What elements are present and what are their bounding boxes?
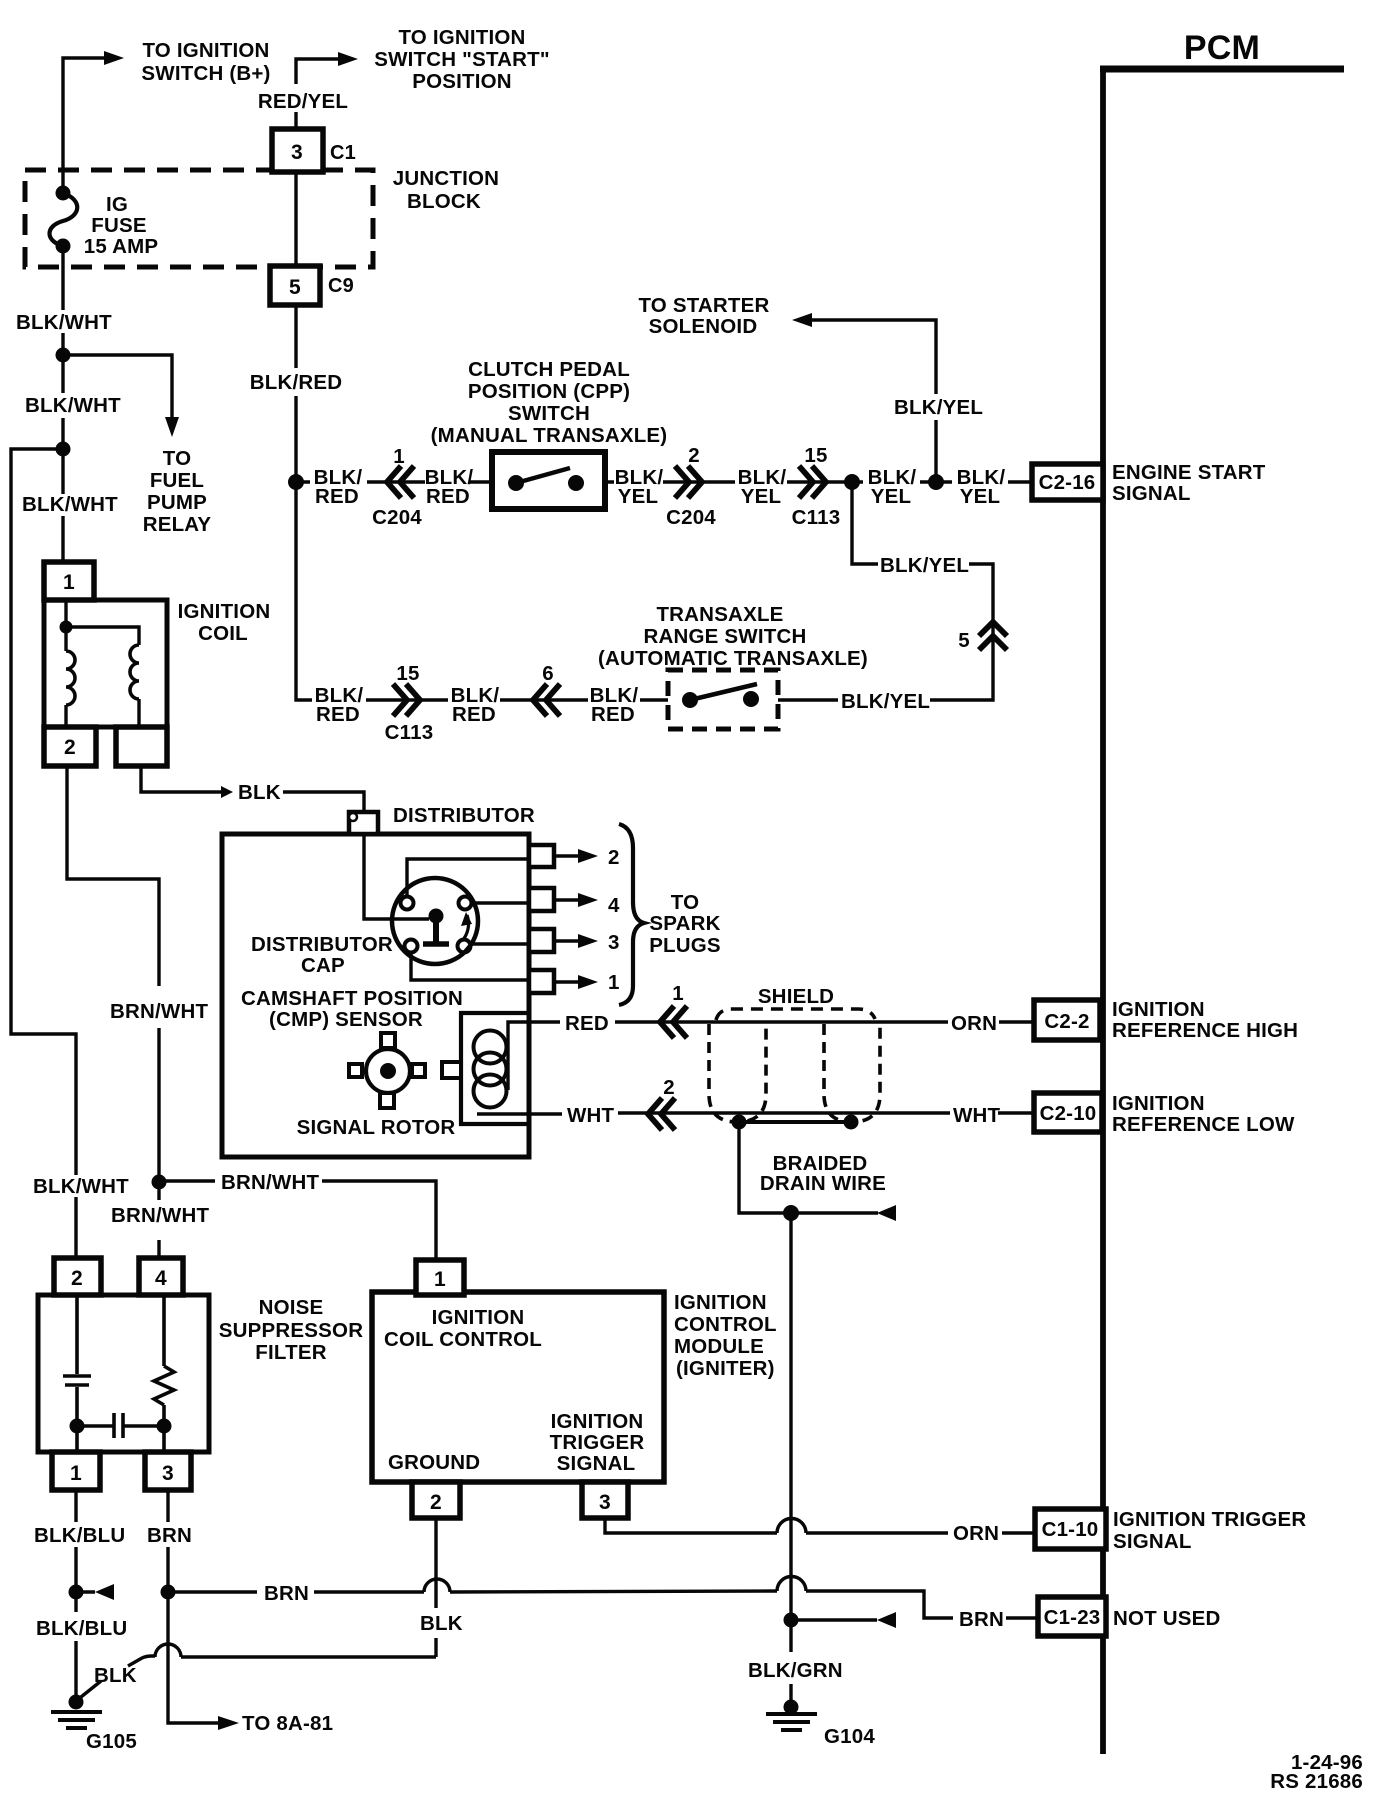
svg-text:SPARK: SPARK: [649, 912, 720, 935]
wire ORN to C1-10: [806, 1531, 948, 1534]
wire RED to connector: [615, 1020, 690, 1023]
svg-text:BLK/GRN: BLK/GRN: [748, 1659, 843, 1682]
svg-text:3: 3: [162, 1462, 174, 1485]
connector C113 pin 15 chevron: [799, 466, 826, 498]
wire BRN continue: [450, 1591, 777, 1592]
svg-text:2: 2: [64, 736, 76, 759]
svg-text:C113: C113: [385, 721, 434, 744]
shield bottom bond wire: [739, 1120, 851, 1124]
connector C1-10: [1035, 1509, 1106, 1549]
ground G104: [766, 1714, 817, 1730]
junction block dashed outline: [25, 170, 373, 267]
wire BLK/RED down from C9: [294, 305, 297, 482]
filter terminal 3: [145, 1452, 191, 1490]
svg-text:G105: G105: [86, 1730, 137, 1753]
PCM module rail: [1100, 66, 1106, 1754]
svg-text:RED: RED: [426, 485, 470, 508]
connector pin 5 chevron up: [979, 622, 1007, 650]
noise suppressor filter body: [38, 1295, 209, 1452]
node drain tap: [784, 1613, 799, 1628]
wire BLK/YEL right of switch: [778, 698, 838, 701]
svg-text:DISTRIBUTOR: DISTRIBUTOR: [393, 804, 535, 827]
connector C204 pin 2 chevron: [675, 466, 702, 498]
wire BLK/YEL branch down: [852, 482, 993, 700]
node drain junction: [783, 1205, 799, 1221]
svg-text:PLUGS: PLUGS: [649, 934, 721, 957]
svg-text:2: 2: [688, 444, 700, 467]
svg-text:YEL: YEL: [618, 485, 658, 508]
node filter right: [157, 1419, 172, 1434]
svg-text:4: 4: [608, 894, 620, 917]
wire BRN to C1-23: [806, 1591, 953, 1618]
svg-text:C113: C113: [792, 506, 841, 529]
ignition coil terminal 1: [44, 562, 94, 600]
label BLK/WHT: [30, 1175, 128, 1197]
filter terminal 4: [139, 1258, 183, 1295]
svg-text:C2-10: C2-10: [1040, 1102, 1097, 1125]
svg-text:SWITCH (B+): SWITCH (B+): [141, 62, 270, 85]
wire BLK/YEL: [605, 480, 852, 483]
svg-text:1: 1: [63, 571, 75, 594]
label RED: [562, 1008, 612, 1033]
wire ORN hop over drain: [777, 1519, 806, 1534]
wire BRN hop over drain: [777, 1577, 806, 1592]
switch transaxle range dashed: [668, 670, 778, 729]
connector C2-10: [1034, 1093, 1102, 1132]
wire WHT into C2-10: [998, 1111, 1034, 1114]
wire BLK from coil tower: [141, 766, 221, 792]
svg-text:DRAIN WIRE: DRAIN WIRE: [760, 1172, 886, 1195]
svg-text:BLK/WHT: BLK/WHT: [33, 1175, 129, 1198]
svg-text:15: 15: [804, 444, 827, 467]
terminal 3 C1: [272, 129, 323, 172]
svg-text:TO 8A-81: TO 8A-81: [242, 1712, 333, 1735]
wire stub arrow: [76, 1590, 95, 1593]
node filter left: [70, 1419, 85, 1434]
svg-text:MODULE: MODULE: [674, 1335, 764, 1358]
signal rotor symbol: [366, 1049, 410, 1093]
svg-text:C204: C204: [666, 506, 716, 529]
shield dome dashed: [716, 1009, 875, 1020]
wire to secondary winding: [66, 627, 139, 645]
wire RED inside sensor: [508, 1022, 560, 1090]
svg-text:RED: RED: [315, 485, 359, 508]
svg-text:RED: RED: [316, 703, 360, 726]
wire coil primary top: [64, 600, 67, 651]
svg-text:GROUND: GROUND: [388, 1451, 480, 1474]
svg-text:C2-2: C2-2: [1044, 1010, 1089, 1033]
wire BRN hop over BLK: [424, 1579, 450, 1592]
svg-text:BLK: BLK: [94, 1664, 137, 1687]
filter terminal 1: [52, 1452, 100, 1490]
fuse IG 15A: [50, 193, 78, 246]
svg-text:NOISE: NOISE: [259, 1296, 324, 1319]
svg-text:5: 5: [958, 629, 970, 652]
arrow spark plug 4: [554, 898, 578, 901]
svg-text:RANGE SWITCH: RANGE SWITCH: [644, 625, 807, 648]
inductor secondary winding: [130, 645, 139, 699]
wire BLK hop over BRN: [155, 1644, 181, 1657]
PCM top edge: [1100, 66, 1344, 73]
svg-text:3: 3: [599, 1491, 611, 1514]
svg-text:BLK/YEL: BLK/YEL: [841, 690, 930, 713]
svg-text:YEL: YEL: [871, 485, 911, 508]
spark terminal 4: [529, 888, 554, 911]
svg-text:YEL: YEL: [741, 485, 781, 508]
svg-text:BLK: BLK: [238, 781, 281, 804]
svg-text:IGNITION: IGNITION: [1112, 998, 1205, 1021]
igniter terminal 2: [412, 1482, 460, 1518]
node BLK/RED junction: [288, 474, 304, 490]
capacitor C middle: [77, 1413, 164, 1438]
svg-text:SIGNAL: SIGNAL: [1113, 1530, 1192, 1553]
igniter terminal 3: [582, 1482, 628, 1518]
connector C204 pin 1 chevron: [387, 466, 414, 498]
wire trigger from igniter 3: [605, 1518, 777, 1533]
svg-text:5: 5: [289, 276, 301, 299]
wire BRN/WHT from coil 2: [67, 766, 159, 1258]
connector C2-2: [1034, 1000, 1100, 1040]
svg-text:SIGNAL ROTOR: SIGNAL ROTOR: [297, 1116, 456, 1139]
arrowhead: [221, 786, 233, 798]
wire BLK/RED row: [296, 480, 492, 483]
wire drain stub arrow: [791, 1618, 877, 1621]
node starter solenoid tap: [928, 474, 944, 490]
svg-text:15: 15: [396, 662, 419, 685]
svg-text:COIL: COIL: [198, 622, 248, 645]
svg-text:(MANUAL TRANSAXLE): (MANUAL TRANSAXLE): [431, 424, 668, 447]
spark terminal 2: [529, 845, 554, 867]
distributor housing: [222, 834, 529, 1157]
svg-text:CONTROL: CONTROL: [674, 1313, 777, 1336]
wire secondary bottom: [137, 699, 140, 727]
wire braided drain: [739, 1122, 791, 1213]
svg-text:TO STARTER: TO STARTER: [638, 294, 769, 317]
node BLK/YEL junction: [844, 474, 860, 490]
arrow spark plug 2: [554, 854, 578, 857]
svg-text:SUPPRESSOR: SUPPRESSOR: [219, 1319, 363, 1342]
svg-text:IGNITION: IGNITION: [674, 1291, 767, 1314]
wire BRN/WHT to igniter pin 1: [159, 1181, 436, 1260]
svg-text:FUEL: FUEL: [150, 469, 204, 492]
svg-text:3: 3: [608, 931, 620, 954]
svg-text:BRN/WHT: BRN/WHT: [111, 1204, 209, 1227]
wire cap to plug 1: [411, 952, 529, 980]
svg-text:FILTER: FILTER: [255, 1341, 326, 1364]
wire BRN into C1-23: [1006, 1616, 1038, 1619]
distributor cap: [392, 878, 478, 964]
svg-text:BRN: BRN: [147, 1524, 192, 1547]
wire BLK diagonal to ground: [76, 1656, 155, 1701]
connector C113 pin 15 chevron: [393, 684, 420, 716]
label BLK: [416, 1608, 462, 1634]
svg-text:ENGINE START: ENGINE START: [1112, 461, 1266, 484]
wire ORN into C1-10: [1002, 1531, 1035, 1534]
svg-text:TO: TO: [671, 891, 700, 914]
svg-text:6: 6: [542, 662, 554, 685]
node ground G104: [784, 1700, 799, 1715]
svg-text:C2-16: C2-16: [1039, 471, 1096, 494]
svg-text:G104: G104: [824, 1725, 875, 1748]
svg-text:REFERENCE HIGH: REFERENCE HIGH: [1112, 1019, 1298, 1042]
svg-text:POSITION: POSITION: [412, 70, 512, 93]
arrow spark plug 3: [554, 939, 578, 942]
shield pouch right dashed: [824, 1024, 880, 1122]
ignition coil terminal 2: [44, 727, 96, 766]
svg-text:BLK/WHT: BLK/WHT: [25, 394, 121, 417]
shield pouch left dashed: [709, 1024, 766, 1122]
inductor primary winding: [66, 651, 75, 705]
svg-text:RED: RED: [591, 703, 635, 726]
svg-text:REFERENCE LOW: REFERENCE LOW: [1112, 1113, 1295, 1136]
switch CPP: [492, 452, 605, 509]
igniter terminal 1: [416, 1260, 464, 1295]
spark terminal 3: [529, 929, 554, 952]
svg-text:COIL CONTROL: COIL CONTROL: [384, 1328, 542, 1351]
node ground G105: [69, 1695, 84, 1710]
wire to fuel pump relay: [63, 355, 172, 417]
svg-text:PCM: PCM: [1184, 29, 1260, 67]
svg-text:C1: C1: [330, 142, 356, 164]
svg-text:BLK: BLK: [420, 1612, 463, 1635]
arrowhead right: [218, 1716, 239, 1730]
svg-text:CAP: CAP: [301, 954, 345, 977]
wire BLK/BLU from filter 1: [74, 1490, 77, 1592]
wire cap to plug 4: [471, 901, 529, 904]
svg-text:FUSE: FUSE: [91, 214, 146, 237]
svg-text:YEL: YEL: [960, 485, 1000, 508]
svg-text:POSITION (CPP): POSITION (CPP): [468, 380, 630, 403]
terminal 5 C9: [270, 266, 320, 305]
svg-text:3: 3: [291, 141, 303, 164]
wire to ignition switch START: [296, 59, 338, 84]
svg-text:BLK/WHT: BLK/WHT: [22, 493, 118, 516]
svg-text:1: 1: [672, 982, 684, 1005]
capacitor C left branch: [63, 1295, 91, 1452]
wire primary bottom: [64, 705, 67, 727]
arrowhead: [338, 52, 358, 66]
connector C2-16: [1032, 464, 1103, 500]
node junction to fuel pump relay: [56, 348, 71, 363]
wire ORN through shield: [690, 1020, 948, 1023]
wire tower to cap: [364, 834, 429, 919]
svg-text:NOT USED: NOT USED: [1113, 1607, 1221, 1630]
rotor rotation arc: [462, 915, 469, 941]
wire BLK/WHT below fuse: [61, 246, 64, 562]
wire BLK to igniter ground: [181, 1518, 436, 1657]
wire BLK/YEL into C2-16: [1008, 480, 1032, 483]
svg-text:RED: RED: [452, 703, 496, 726]
svg-text:RED/YEL: RED/YEL: [258, 90, 348, 113]
arrowhead down: [165, 417, 179, 437]
arrowhead: [104, 51, 124, 65]
node junction to left rail: [56, 442, 71, 457]
svg-text:TO: TO: [163, 447, 192, 470]
svg-text:2: 2: [430, 1491, 442, 1514]
brace to spark plugs: [619, 824, 644, 1005]
label BRN: [260, 1580, 312, 1604]
wire BRN from filter 3: [166, 1490, 169, 1592]
wire drain stub arrow: [791, 1211, 878, 1214]
svg-text:(IGNITER): (IGNITER): [676, 1357, 775, 1380]
wire BLK/YEL: [852, 480, 952, 483]
svg-text:DISTRIBUTOR: DISTRIBUTOR: [251, 933, 393, 956]
wire to ignition switch B+: [63, 58, 104, 193]
svg-text:JUNCTION: JUNCTION: [393, 167, 499, 190]
svg-text:BLK/WHT: BLK/WHT: [16, 311, 112, 334]
node BLK/BLU junction: [69, 1585, 84, 1600]
svg-text:1: 1: [393, 445, 405, 468]
wire cap to plug 2: [407, 859, 529, 897]
svg-text:IGNITION: IGNITION: [178, 600, 271, 623]
svg-text:IGNITION: IGNITION: [1112, 1092, 1205, 1115]
svg-text:SWITCH: SWITCH: [508, 402, 590, 425]
connector C1-23: [1038, 1597, 1106, 1636]
svg-text:CAMSHAFT POSITION: CAMSHAFT POSITION: [241, 987, 463, 1010]
svg-text:BLK/YEL: BLK/YEL: [880, 554, 969, 577]
node BRN/WHT junction: [152, 1175, 167, 1190]
svg-text:BRN: BRN: [264, 1582, 309, 1605]
svg-text:PUMP: PUMP: [147, 491, 207, 514]
svg-text:IGNITION: IGNITION: [432, 1306, 525, 1329]
ignition coil output terminal: [116, 727, 167, 766]
svg-text:RS 21686: RS 21686: [1270, 1770, 1363, 1793]
svg-text:IGNITION: IGNITION: [551, 1410, 644, 1433]
wire cap to plug 3: [470, 942, 529, 945]
svg-text:(AUTOMATIC TRANSAXLE): (AUTOMATIC TRANSAXLE): [598, 647, 868, 670]
svg-text:BLK/YEL: BLK/YEL: [894, 396, 983, 419]
svg-text:C9: C9: [328, 275, 354, 297]
spark terminal 1: [529, 970, 554, 993]
svg-text:4: 4: [155, 1267, 167, 1290]
svg-text:TO IGNITION: TO IGNITION: [398, 26, 525, 49]
svg-text:WHT: WHT: [567, 1104, 615, 1127]
svg-text:SHIELD: SHIELD: [758, 985, 834, 1008]
svg-text:TRIGGER: TRIGGER: [550, 1431, 645, 1454]
svg-text:IGNITION TRIGGER: IGNITION TRIGGER: [1113, 1508, 1306, 1531]
svg-text:BLK/BLU: BLK/BLU: [34, 1524, 125, 1547]
svg-text:RELAY: RELAY: [143, 513, 212, 536]
svg-text:C204: C204: [372, 506, 422, 529]
wire through junction block: [294, 172, 297, 266]
wire WHT to connector: [618, 1111, 678, 1114]
distributor tower terminal: [349, 812, 378, 834]
svg-text:1: 1: [608, 971, 620, 994]
svg-text:BLK/BLU: BLK/BLU: [36, 1617, 127, 1640]
svg-text:SWITCH "START": SWITCH "START": [374, 48, 550, 71]
wire braided drain down: [789, 1213, 792, 1707]
node BRN junction: [161, 1585, 176, 1600]
svg-text:CLUTCH PEDAL: CLUTCH PEDAL: [468, 358, 630, 381]
svg-text:1: 1: [434, 1268, 446, 1291]
wire BLK/BLU to ground: [74, 1592, 77, 1702]
svg-text:RED: RED: [565, 1012, 609, 1035]
connector pin 1 chevron: [660, 1006, 687, 1038]
svg-text:15 AMP: 15 AMP: [84, 235, 159, 258]
svg-text:SOLENOID: SOLENOID: [649, 315, 758, 338]
wire BRN row: [168, 1590, 424, 1593]
svg-text:BRN/WHT: BRN/WHT: [221, 1171, 319, 1194]
wire RED/YEL: [294, 112, 297, 129]
svg-text:C1-23: C1-23: [1044, 1606, 1101, 1629]
svg-text:BLOCK: BLOCK: [407, 190, 481, 213]
svg-text:1: 1: [70, 1462, 82, 1485]
svg-text:SIGNAL: SIGNAL: [1112, 482, 1191, 505]
CMP pickup housing: [461, 1013, 527, 1124]
wire to starter solenoid: [812, 320, 936, 482]
svg-text:ORN: ORN: [953, 1522, 999, 1545]
svg-text:(CMP) SENSOR: (CMP) SENSOR: [269, 1008, 423, 1031]
ground G105: [51, 1712, 102, 1728]
svg-text:IG: IG: [106, 193, 128, 216]
svg-text:SIGNAL: SIGNAL: [557, 1452, 636, 1475]
CMP pickup stub: [442, 1062, 461, 1078]
svg-text:BRN: BRN: [959, 1608, 1004, 1631]
svg-text:ORN: ORN: [951, 1012, 997, 1035]
igniter body: [372, 1292, 664, 1482]
node coil internal: [60, 621, 73, 634]
svg-text:C1-10: C1-10: [1042, 1518, 1099, 1541]
svg-text:2: 2: [663, 1076, 675, 1099]
label ORN: [949, 1519, 1001, 1544]
wire BLK to distributor: [283, 792, 364, 814]
CMP pickup coil: [474, 1031, 507, 1064]
resistor right branch: [154, 1295, 174, 1452]
svg-text:TRANSAXLE: TRANSAXLE: [656, 603, 783, 626]
svg-text:2: 2: [71, 1267, 83, 1290]
ignition coil body: [44, 600, 167, 727]
svg-text:BLK/RED: BLK/RED: [250, 371, 343, 394]
wire left rail BLK/WHT: [11, 449, 76, 1258]
label WHT: [564, 1100, 616, 1125]
filter terminal 2: [54, 1258, 101, 1295]
svg-text:WHT: WHT: [953, 1104, 1001, 1127]
wire BLK/RED lower row: [296, 482, 668, 700]
arrowhead left: [792, 313, 812, 327]
wire BRN to TO 8A-81: [168, 1592, 218, 1723]
wire ORN into C2-2: [999, 1020, 1034, 1023]
svg-text:BRN/WHT: BRN/WHT: [110, 1000, 208, 1023]
connector pin 6 chevron: [533, 684, 560, 716]
svg-text:2: 2: [608, 846, 620, 869]
wire WHT through shield: [678, 1111, 950, 1114]
svg-text:TO IGNITION: TO IGNITION: [142, 39, 269, 62]
wire WHT inside sensor: [477, 1112, 562, 1115]
arrow spark plug 1: [554, 980, 578, 983]
connector pin 2 chevron: [648, 1098, 675, 1130]
